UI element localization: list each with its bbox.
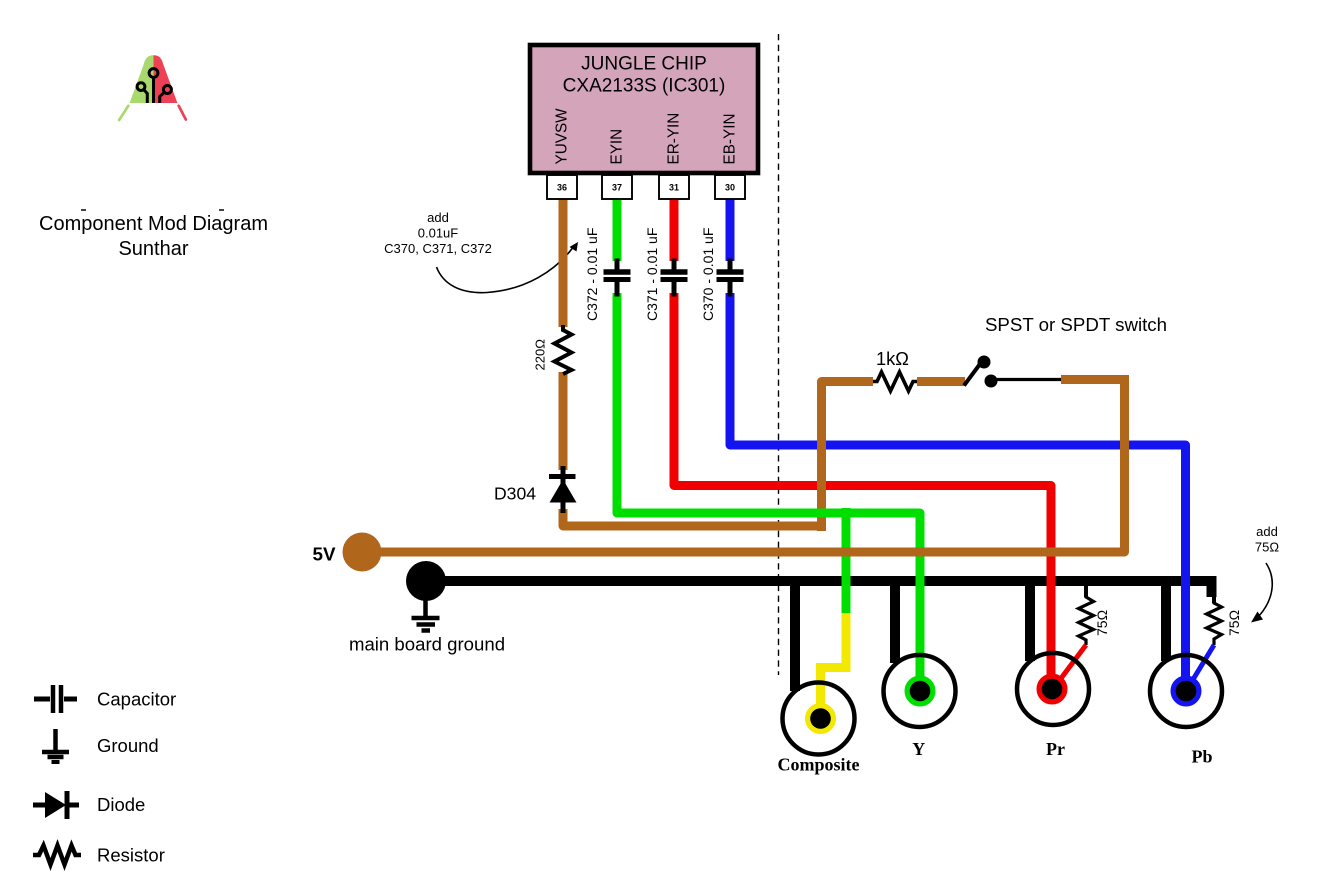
svg-text:30: 30 <box>725 183 735 193</box>
svg-text:Capacitor: Capacitor <box>97 689 176 710</box>
svg-text:Resistor: Resistor <box>97 845 165 866</box>
svg-text:Pr: Pr <box>1046 739 1065 759</box>
svg-text:Component Mod Diagram: Component Mod Diagram <box>39 213 268 235</box>
svg-text:main board ground: main board ground <box>349 634 505 655</box>
svg-text:C370, C371, C372: C370, C371, C372 <box>384 241 492 256</box>
svg-text:add: add <box>1256 524 1278 539</box>
svg-text:Pb: Pb <box>1191 747 1212 767</box>
svg-text:0.01uF: 0.01uF <box>418 226 459 241</box>
svg-text:EYIN: EYIN <box>609 129 626 165</box>
svg-text:YUVSW: YUVSW <box>554 108 571 165</box>
svg-text:220Ω: 220Ω <box>533 339 548 371</box>
svg-text:1kΩ: 1kΩ <box>876 348 909 369</box>
svg-text:Composite: Composite <box>778 755 860 775</box>
svg-text:Ground: Ground <box>97 735 159 756</box>
svg-text:37: 37 <box>612 183 622 193</box>
svg-text:ER-YIN: ER-YIN <box>666 113 683 165</box>
svg-text:75Ω: 75Ω <box>1226 610 1242 636</box>
svg-text:36: 36 <box>557 183 567 193</box>
svg-text:31: 31 <box>669 183 679 193</box>
svg-text:CXA2133S (IC301): CXA2133S (IC301) <box>563 76 726 97</box>
svg-text:Y: Y <box>912 739 925 759</box>
svg-text:C371 - 0.01 uF: C371 - 0.01 uF <box>644 228 660 321</box>
svg-text:Sunthar: Sunthar <box>118 238 188 260</box>
svg-text:EB-YIN: EB-YIN <box>722 114 739 165</box>
svg-text:JUNGLE CHIP: JUNGLE CHIP <box>581 54 707 75</box>
svg-text:C370 - 0.01 uF: C370 - 0.01 uF <box>700 228 716 321</box>
svg-text:5V: 5V <box>313 544 336 565</box>
svg-text:75Ω: 75Ω <box>1255 540 1279 555</box>
svg-text:75Ω: 75Ω <box>1094 610 1110 636</box>
svg-text:D304: D304 <box>494 484 536 504</box>
svg-text:C372 - 0.01 uF: C372 - 0.01 uF <box>584 228 600 321</box>
svg-text:SPST or SPDT switch: SPST or SPDT switch <box>985 314 1167 335</box>
svg-text:add: add <box>427 210 449 225</box>
svg-text:Diode: Diode <box>97 794 145 815</box>
